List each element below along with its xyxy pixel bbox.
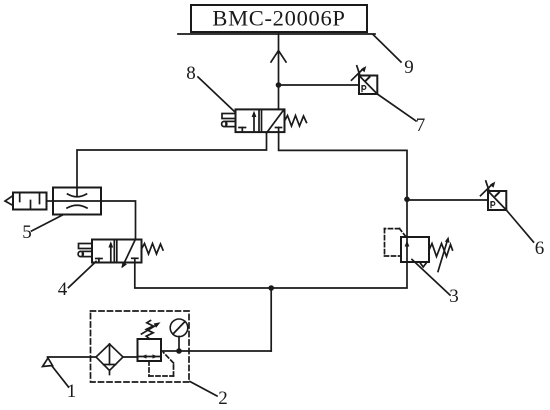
leader 7 (377, 94, 416, 121)
spring of reducing valve (146, 321, 153, 340)
svg-text:BMC-20006P: BMC-20006P (212, 6, 345, 31)
junction node C (268, 285, 274, 291)
spring of valve 8 (285, 116, 307, 127)
pressure sensor 6 (481, 181, 507, 210)
solenoid valve 4 (78, 240, 163, 269)
svg-text:3: 3 (449, 286, 459, 307)
wire: source to filter (48, 356, 97, 358)
pressure sensor 7 (352, 66, 378, 94)
svg-text:1: 1 (67, 381, 77, 402)
wire: generator 5 to valve 4 (101, 201, 136, 240)
leader 6 (506, 210, 533, 242)
svg-text:9: 9 (404, 57, 414, 78)
solenoid pins of valve 8 (222, 114, 236, 119)
solenoid pins of valve 4 (79, 244, 93, 249)
wire: node C down to FRL outlet (270, 288, 272, 351)
pilot line of reducing valve (149, 353, 174, 377)
svg-text:6: 6 (535, 238, 545, 259)
pressure reducing valve of FRL (138, 321, 174, 377)
muffler of 5 (13, 193, 47, 210)
pressure gauge of FRL (170, 319, 188, 351)
svg-text:4: 4 (58, 279, 68, 300)
svg-text:5: 5 (22, 222, 32, 243)
FRL unit 2 dashed enclosure (91, 311, 190, 382)
leader 4 (69, 262, 97, 288)
wire: filter to regulator (123, 356, 138, 358)
air source 1 (43, 358, 53, 367)
filter separator of FRL (96, 344, 123, 375)
junction node D (176, 348, 182, 354)
wire: valve 8 right port to right bus (279, 132, 407, 237)
vacuum generator 5 (5, 188, 101, 215)
leader 5 (32, 215, 64, 232)
junction node B (404, 197, 410, 203)
leader 8 (198, 77, 235, 112)
wire: valve 8 port 2 to controller (278, 34, 280, 109)
mounting line under controller (178, 33, 375, 35)
spring of valve 4 (142, 244, 164, 255)
svg-text:2: 2 (218, 388, 228, 409)
wire: valve 8 left port down (77, 132, 267, 187)
wire: regulator outlet (161, 350, 271, 352)
solenoid valve 8 (222, 109, 307, 133)
flow arrow up (271, 51, 286, 63)
junction node A (276, 82, 282, 88)
leader 2 (190, 382, 217, 397)
spring of regulator 3 (429, 244, 453, 257)
svg-text:7: 7 (416, 115, 426, 136)
wire: valve 4 out port to bottom bus (135, 262, 407, 288)
wire: node B to sensor 6 (407, 199, 488, 201)
exhaust port of 3 (420, 262, 428, 267)
leader 3 (412, 260, 450, 296)
wire: node A to sensor 7 (279, 84, 360, 86)
leader 1 (52, 366, 69, 387)
controller box U9 (191, 5, 367, 32)
pressure regulator 3 (385, 229, 453, 272)
leader 9 (373, 35, 401, 63)
svg-text:8: 8 (186, 63, 196, 84)
